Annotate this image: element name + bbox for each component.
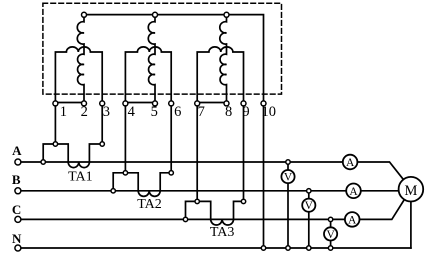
wire: voltmeter V3 branch C to N [330, 219, 332, 248]
svg-text:3: 3 [103, 104, 110, 120]
svg-text:A: A [346, 157, 355, 169]
svg-text:9: 9 [242, 104, 249, 120]
link bar terminals 1-2 [55, 102, 84, 104]
phase line B [21, 190, 346, 192]
ammeter A3 [345, 212, 360, 227]
transformer secondary winding W2a [55, 47, 102, 104]
terminal 5 [153, 101, 158, 106]
motor M [399, 177, 424, 202]
node: TA2 tap on line B [111, 189, 115, 193]
ammeter A1 [343, 155, 358, 170]
node: TA3 bridge junction [195, 199, 199, 203]
terminal 9 [241, 101, 246, 106]
node: TA2 secondary out [169, 171, 173, 175]
wire: terminal 3 down to TA1 secondary [101, 103, 103, 144]
node: TA1 tap on line A [41, 160, 45, 164]
voltmeter V3 [324, 227, 337, 240]
svg-text:A: A [349, 186, 358, 198]
node: line B source terminal [15, 188, 21, 194]
wire: terminal 1 down to TA1 tap [54, 103, 56, 144]
transformer primary winding W1c [220, 17, 227, 103]
wire: terminal 7 down to TA3 tap [196, 103, 198, 201]
terminal 4 [123, 101, 128, 106]
CT TA3 secondary winding [211, 219, 234, 225]
svg-text:TA2: TA2 [137, 197, 162, 212]
node: TA1 bridge junction [53, 142, 57, 146]
ammeter A2 [346, 184, 361, 199]
svg-text:8: 8 [225, 104, 232, 120]
phase line B after ammeter to motor [361, 190, 399, 192]
CT TA1 secondary winding [68, 162, 89, 168]
wire: voltmeter V1 branch A to N [287, 162, 289, 248]
transformer secondary winding W2c [197, 47, 243, 104]
phase line C [21, 218, 345, 220]
node: line N source terminal [15, 245, 21, 251]
wire: terminal 9 down to TA3 secondary [243, 103, 245, 201]
wire: terminal 10 drop to neutral [263, 103, 265, 248]
svg-text:TA3: TA3 [210, 225, 235, 240]
node: terminal 10 on line N [261, 246, 265, 250]
CT TA2 secondary winding [138, 191, 160, 197]
wire: motor star point to neutral [410, 202, 412, 249]
node: TA1 secondary out [100, 142, 104, 146]
CT TA2 secondary return [160, 173, 171, 191]
node on bus at winding W1c [224, 12, 229, 17]
svg-text:N: N [12, 231, 22, 246]
wire: terminal 4 down to TA2 tap [124, 103, 126, 172]
node: V2 on line N [307, 246, 311, 250]
CT TA2 primary bridge [113, 173, 138, 191]
svg-text:V: V [326, 229, 335, 241]
terminal 2 [82, 101, 87, 106]
terminal 10 [261, 101, 266, 106]
terminal 8 [224, 101, 229, 106]
terminal 1 [53, 101, 58, 106]
terminal 7 [195, 101, 200, 106]
svg-text:2: 2 [81, 104, 88, 120]
svg-text:4: 4 [128, 104, 136, 120]
neutral line N [21, 247, 411, 249]
svg-text:5: 5 [151, 104, 158, 120]
CT TA1 primary bridge [43, 144, 68, 162]
svg-text:7: 7 [198, 104, 205, 120]
link bar terminals 7-8 [197, 102, 226, 104]
svg-text:A: A [12, 143, 22, 158]
node: V3 on line N [328, 246, 332, 250]
wire: top bus from node 1 to terminal 10 drop [84, 15, 264, 104]
svg-text:1: 1 [60, 104, 67, 120]
terminal 6 [169, 101, 174, 106]
CT TA1 secondary return [89, 144, 102, 162]
svg-text:10: 10 [262, 104, 277, 120]
svg-text:M: M [404, 183, 417, 199]
node: V2 tap on line B [307, 189, 311, 193]
svg-text:V: V [305, 200, 314, 212]
CT TA3 secondary return [234, 201, 244, 219]
node: TA2 bridge junction [123, 171, 127, 175]
node: TA3 secondary out [241, 199, 245, 203]
node on bus at winding W1b [153, 12, 158, 17]
phase line A after ammeter to motor [357, 162, 403, 180]
transformer secondary winding W2b [125, 47, 171, 104]
svg-text:6: 6 [174, 104, 181, 120]
node: TA3 tap on line C [183, 217, 187, 221]
voltmeter V1 [281, 170, 294, 183]
node: line C source terminal [15, 216, 21, 222]
node: V1 tap on line A [286, 160, 290, 164]
svg-text:V: V [284, 172, 293, 184]
node: line A source terminal [15, 159, 21, 165]
terminal 3 [100, 101, 105, 106]
dashed enclosure box (energy meter) [43, 3, 282, 94]
transformer primary winding W1a [77, 17, 84, 103]
svg-text:B: B [12, 172, 21, 187]
wire: voltmeter V2 branch B to N [308, 191, 310, 248]
CT TA3 primary bridge [186, 201, 211, 219]
node: V3 tap on line C [328, 217, 332, 221]
phase line C after ammeter to motor [360, 200, 405, 220]
node: V1 on line N [286, 246, 290, 250]
wire: terminal 6 down to TA2 secondary [170, 103, 172, 172]
phase line A [21, 161, 343, 163]
svg-text:TA1: TA1 [68, 169, 93, 184]
link bar terminals 4-5 [125, 102, 155, 104]
transformer primary winding W1b [148, 17, 155, 103]
voltmeter V2 [302, 199, 315, 212]
node on bus at winding W1a [82, 12, 87, 17]
svg-text:C: C [12, 202, 21, 217]
svg-text:A: A [348, 215, 357, 227]
